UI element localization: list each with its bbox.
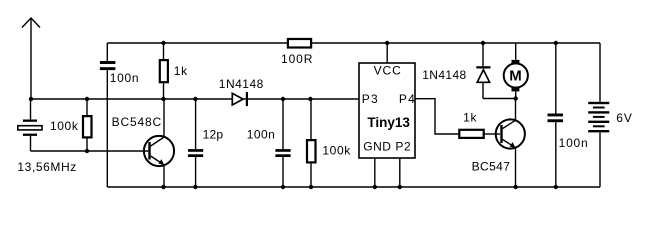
svg-text:VCC: VCC bbox=[374, 64, 402, 78]
svg-text:100n: 100n bbox=[110, 71, 140, 85]
svg-text:100k: 100k bbox=[322, 143, 351, 157]
svg-text:100R: 100R bbox=[281, 52, 313, 66]
svg-text:100k: 100k bbox=[50, 119, 79, 133]
svg-text:P4: P4 bbox=[399, 92, 416, 106]
svg-text:1N4148: 1N4148 bbox=[422, 68, 466, 82]
svg-text:1N4148: 1N4148 bbox=[219, 77, 264, 91]
svg-text:Tiny13: Tiny13 bbox=[367, 115, 410, 130]
svg-text:100n: 100n bbox=[559, 136, 589, 150]
svg-text:6V: 6V bbox=[616, 111, 633, 125]
svg-text:12p: 12p bbox=[203, 128, 224, 142]
svg-text:GND P2: GND P2 bbox=[363, 140, 411, 154]
svg-text:1k: 1k bbox=[174, 64, 188, 78]
svg-text:P3: P3 bbox=[362, 92, 379, 106]
svg-text:BC548C: BC548C bbox=[112, 115, 162, 129]
svg-text:13,56MHz: 13,56MHz bbox=[17, 160, 77, 174]
svg-text:1k: 1k bbox=[463, 111, 477, 125]
svg-text:M: M bbox=[509, 67, 522, 84]
svg-text:100n: 100n bbox=[247, 128, 275, 142]
svg-text:BC547: BC547 bbox=[472, 160, 511, 174]
